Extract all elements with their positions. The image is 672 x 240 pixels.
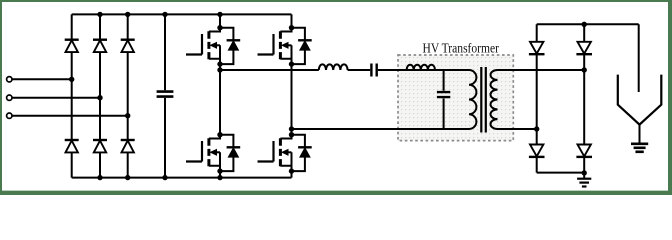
svg-text:HV Transformer: HV Transformer	[423, 40, 500, 55]
